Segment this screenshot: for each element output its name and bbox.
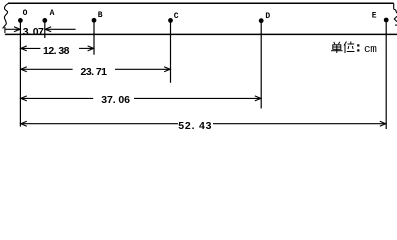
node A dot bbox=[42, 18, 47, 23]
tape bottom edge bbox=[5, 33, 397, 35]
node E dot bbox=[384, 18, 389, 23]
dimension 52.43 right line segment bbox=[213, 123, 386, 125]
svg-text:23. 71: 23. 71 bbox=[81, 66, 108, 78]
dimension 37.06 right arrowhead at D bbox=[255, 96, 261, 101]
svg-text:C: C bbox=[174, 12, 179, 21]
extension line from point D bbox=[260, 21, 262, 109]
dimension 3.07 right-pointing arrowhead at O bbox=[14, 27, 20, 32]
svg-text:A: A bbox=[50, 9, 55, 18]
svg-text:3. 07: 3. 07 bbox=[23, 26, 44, 38]
dimension 23.71 right line segment bbox=[115, 68, 170, 70]
node O dot bbox=[18, 18, 23, 23]
dimension 3.07 right leader line bbox=[45, 28, 75, 30]
dimension 12.38 right line segment bbox=[79, 47, 94, 49]
tape top edge bbox=[8, 2, 394, 4]
node C dot bbox=[168, 18, 173, 23]
svg-text:D: D bbox=[265, 12, 270, 21]
node B dot bbox=[92, 18, 97, 23]
dimension 37.06 right line segment bbox=[134, 97, 261, 99]
dimension 12.38 right arrowhead at B bbox=[88, 46, 94, 51]
dimension 12.38 left line segment bbox=[21, 47, 41, 49]
extension line from point O bbox=[19, 21, 21, 127]
unit label character DAN (single) bbox=[331, 42, 343, 53]
svg-text:12. 38: 12. 38 bbox=[43, 45, 70, 57]
svg-text:B: B bbox=[98, 11, 103, 20]
dimension 3.07 left terminator tick bbox=[4, 27, 6, 33]
dimension 12.38 left arrowhead at O bbox=[21, 46, 27, 51]
svg-text:37. 06: 37. 06 bbox=[101, 94, 130, 106]
dimension 23.71 left arrowhead at O bbox=[21, 67, 27, 72]
extension line from point A bbox=[44, 21, 46, 38]
dimension 52.43 left arrowhead at O bbox=[21, 121, 27, 126]
dimension 3.07 left-pointing arrowhead at A bbox=[45, 27, 51, 32]
dimension 37.06 left line segment bbox=[21, 97, 93, 99]
dimension 23.71 right arrowhead at C bbox=[164, 67, 170, 72]
svg-text:E: E bbox=[372, 12, 377, 21]
extension line from point B bbox=[93, 21, 95, 55]
unit label fullwidth colon bbox=[357, 44, 359, 46]
tape left torn edge bbox=[3, 3, 9, 28]
dimension 37.06 left arrowhead at O bbox=[21, 96, 27, 101]
dimension 52.43 right arrowhead at E bbox=[380, 121, 386, 126]
svg-text:52. 43: 52. 43 bbox=[178, 120, 212, 132]
extension line from point E bbox=[385, 21, 387, 129]
tape right torn edge bbox=[394, 3, 397, 25]
node D dot bbox=[259, 18, 264, 23]
dimension 3.07 left leader line bbox=[5, 28, 20, 30]
dimension 52.43 left line segment bbox=[21, 123, 178, 125]
unit label character WEI (position) bbox=[344, 42, 355, 54]
extension line from point C bbox=[170, 21, 172, 83]
svg-text:cm: cm bbox=[364, 44, 377, 56]
svg-text:O: O bbox=[23, 9, 28, 18]
dimension 23.71 left line segment bbox=[21, 68, 73, 70]
